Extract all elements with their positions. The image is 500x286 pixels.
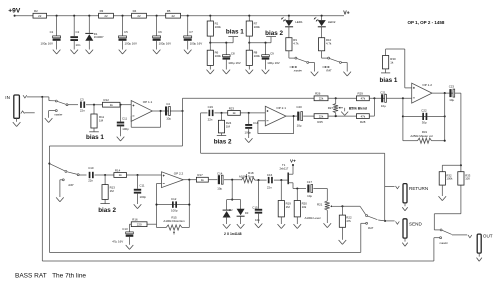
svg-text:1k: 1k (201, 178, 205, 182)
svg-text:10µ: 10µ (449, 98, 454, 102)
svg-text:C1: C1 (50, 30, 54, 34)
svg-text:10µ: 10µ (381, 104, 386, 108)
svg-text:R23: R23 (229, 106, 235, 110)
svg-text:2 X 1n4148: 2 X 1n4148 (224, 232, 242, 236)
svg-text:10µ: 10µ (297, 123, 302, 127)
svg-text:R14: R14 (115, 168, 121, 172)
svg-text:bias 1: bias 1 (380, 77, 398, 84)
svg-text:100p: 100p (245, 131, 252, 135)
svg-text:22: 22 (171, 14, 175, 18)
svg-text:22n: 22n (88, 178, 93, 182)
svg-text:bias 1: bias 1 (86, 134, 104, 141)
svg-text:220: 220 (137, 222, 142, 226)
svg-text:R12: R12 (104, 98, 110, 102)
svg-text:22n: 22n (208, 118, 213, 122)
svg-text:10µ: 10µ (166, 117, 171, 121)
svg-text:IN: IN (5, 95, 10, 100)
svg-text:D2: D2 (229, 208, 233, 212)
svg-text:1M: 1M (226, 125, 231, 129)
svg-text:LED1: LED1 (295, 20, 303, 24)
svg-text:22k: 22k (319, 114, 324, 118)
svg-text:100: 100 (465, 177, 470, 181)
svg-text:R28: R28 (360, 120, 366, 124)
svg-text:4.7k: 4.7k (326, 42, 332, 46)
svg-text:V+: V+ (343, 11, 350, 17)
svg-text:R2: R2 (34, 9, 38, 13)
svg-text:+9V: +9V (8, 7, 21, 14)
svg-text:1M: 1M (99, 119, 104, 123)
svg-text:C10: C10 (88, 166, 94, 170)
svg-text:master: master (54, 112, 62, 116)
svg-text:bias 2: bias 2 (214, 139, 232, 146)
svg-text:100µ 16V: 100µ 16V (41, 42, 54, 46)
svg-text:100k: 100k (215, 25, 222, 29)
svg-text:R25: R25 (317, 120, 323, 124)
svg-text:RAT: RAT (326, 69, 332, 73)
svg-text:R26: R26 (315, 92, 321, 96)
svg-text:100p: 100p (140, 195, 147, 199)
svg-text:100k: 100k (215, 54, 222, 58)
svg-text:C6: C6 (158, 30, 162, 34)
svg-text:RAT: RAT (368, 226, 374, 230)
svg-text:C11: C11 (139, 184, 144, 188)
svg-text:10µ: 10µ (307, 194, 312, 198)
svg-text:R27: R27 (328, 106, 334, 110)
svg-text:47µ 16V: 47µ 16V (112, 239, 123, 243)
svg-text:SEND: SEND (409, 222, 422, 227)
svg-text:D3: D3 (245, 211, 249, 215)
svg-text:OUT: OUT (483, 234, 493, 239)
svg-text:B50k Blend: B50k Blend (349, 106, 367, 110)
svg-text:10n: 10n (76, 43, 81, 47)
svg-text:10k: 10k (302, 205, 307, 209)
svg-text:OP 1, OP 2 - 1458: OP 1, OP 2 - 1458 (408, 20, 445, 25)
svg-text:C22: C22 (421, 109, 427, 113)
svg-text:100µ 16V: 100µ 16V (159, 42, 172, 46)
svg-text:C17: C17 (307, 180, 313, 184)
svg-text:100µ 16V: 100µ 16V (267, 61, 280, 65)
svg-text:R4: R4 (133, 9, 137, 13)
svg-text:OP 1.2: OP 1.2 (422, 83, 432, 87)
svg-text:22n: 22n (267, 185, 272, 189)
svg-text:C12: C12 (171, 197, 177, 201)
svg-text:A100k Level: A100k Level (305, 216, 321, 220)
svg-text:OP 1.1: OP 1.1 (143, 100, 153, 104)
svg-text:R21: R21 (317, 202, 323, 206)
svg-text:2sk117: 2sk117 (280, 166, 289, 170)
svg-text:47k: 47k (361, 97, 366, 101)
svg-text:C21: C21 (380, 91, 386, 95)
svg-text:bias 2: bias 2 (98, 207, 116, 214)
svg-text:C2: C2 (76, 30, 80, 34)
svg-text:1k: 1k (390, 61, 394, 65)
svg-text:RETURN: RETURN (409, 186, 428, 191)
svg-text:22n: 22n (80, 109, 85, 113)
svg-text:47k: 47k (346, 219, 351, 223)
svg-text:C8: C8 (231, 52, 235, 56)
svg-text:100p: 100p (122, 127, 129, 131)
svg-text:30p: 30p (422, 120, 427, 124)
svg-text:R17: R17 (197, 173, 203, 177)
svg-text:C11: C11 (122, 117, 127, 121)
svg-text:100k: 100k (254, 25, 261, 29)
svg-text:100k: 100k (446, 177, 453, 181)
svg-text:C16: C16 (267, 173, 273, 177)
svg-text:C3: C3 (80, 97, 84, 101)
svg-text:A100k Distortion: A100k Distortion (163, 219, 185, 223)
svg-text:100µ 16V: 100µ 16V (228, 61, 241, 65)
svg-text:A250k Master vol: A250k Master vol (410, 134, 433, 138)
svg-text:1M: 1M (110, 189, 115, 193)
svg-text:C7: C7 (189, 30, 193, 34)
svg-text:C4: C4 (166, 102, 170, 106)
svg-text:R5: R5 (167, 9, 171, 13)
svg-text:OP 2.2: OP 2.2 (174, 172, 184, 176)
svg-text:BASS RAT The 7th line: BASS RAT The 7th line (15, 272, 86, 279)
svg-text:R3: R3 (100, 9, 104, 13)
svg-text:R16: R16 (132, 218, 138, 222)
svg-text:C5: C5 (124, 30, 128, 34)
svg-text:master: master (294, 69, 302, 73)
svg-text:bias 2: bias 2 (265, 30, 283, 37)
svg-text:bias 1: bias 1 (226, 29, 244, 36)
svg-text:C20: C20 (296, 105, 302, 109)
svg-text:C23: C23 (449, 84, 455, 88)
svg-text:OP 2.1: OP 2.1 (276, 106, 286, 110)
svg-text:V+: V+ (290, 159, 296, 164)
svg-text:22k: 22k (319, 97, 324, 101)
svg-text:C15: C15 (252, 205, 258, 209)
svg-text:LED2: LED2 (328, 20, 336, 24)
svg-text:47k: 47k (361, 114, 366, 118)
svg-text:22: 22 (104, 14, 108, 18)
svg-text:100µ 16V: 100µ 16V (190, 42, 203, 46)
svg-text:C19: C19 (208, 105, 214, 109)
svg-text:master: master (440, 241, 448, 245)
svg-text:10µ: 10µ (217, 186, 222, 190)
svg-text:C9: C9 (270, 52, 274, 56)
svg-text:RAT: RAT (69, 183, 75, 187)
svg-text:1N4007: 1N4007 (94, 35, 104, 39)
svg-text:1M: 1M (286, 205, 291, 209)
svg-text:R29: R29 (358, 92, 364, 96)
svg-text:100p: 100p (171, 209, 178, 213)
svg-text:10n: 10n (255, 218, 260, 222)
svg-text:C14: C14 (217, 171, 223, 175)
svg-text:C13: C13 (122, 227, 128, 231)
svg-text:4.7k: 4.7k (293, 42, 299, 46)
svg-text:100k: 100k (254, 54, 261, 58)
svg-text:22: 22 (137, 14, 141, 18)
svg-text:100µ 16V: 100µ 16V (125, 42, 138, 46)
svg-text:22: 22 (38, 14, 42, 18)
